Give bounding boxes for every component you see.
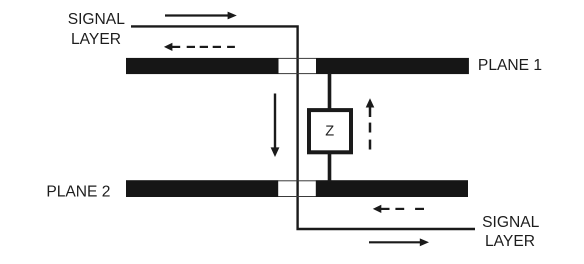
svg-text:SIGNAL: SIGNAL — [482, 214, 540, 231]
svg-text:SIGNAL: SIGNAL — [68, 11, 126, 28]
svg-text:LAYER: LAYER — [485, 233, 535, 250]
svg-text:PLANE 1: PLANE 1 — [478, 57, 542, 74]
svg-text:PLANE 2: PLANE 2 — [46, 184, 110, 201]
svg-text:Z: Z — [325, 123, 334, 139]
svg-text:LAYER: LAYER — [71, 31, 121, 48]
